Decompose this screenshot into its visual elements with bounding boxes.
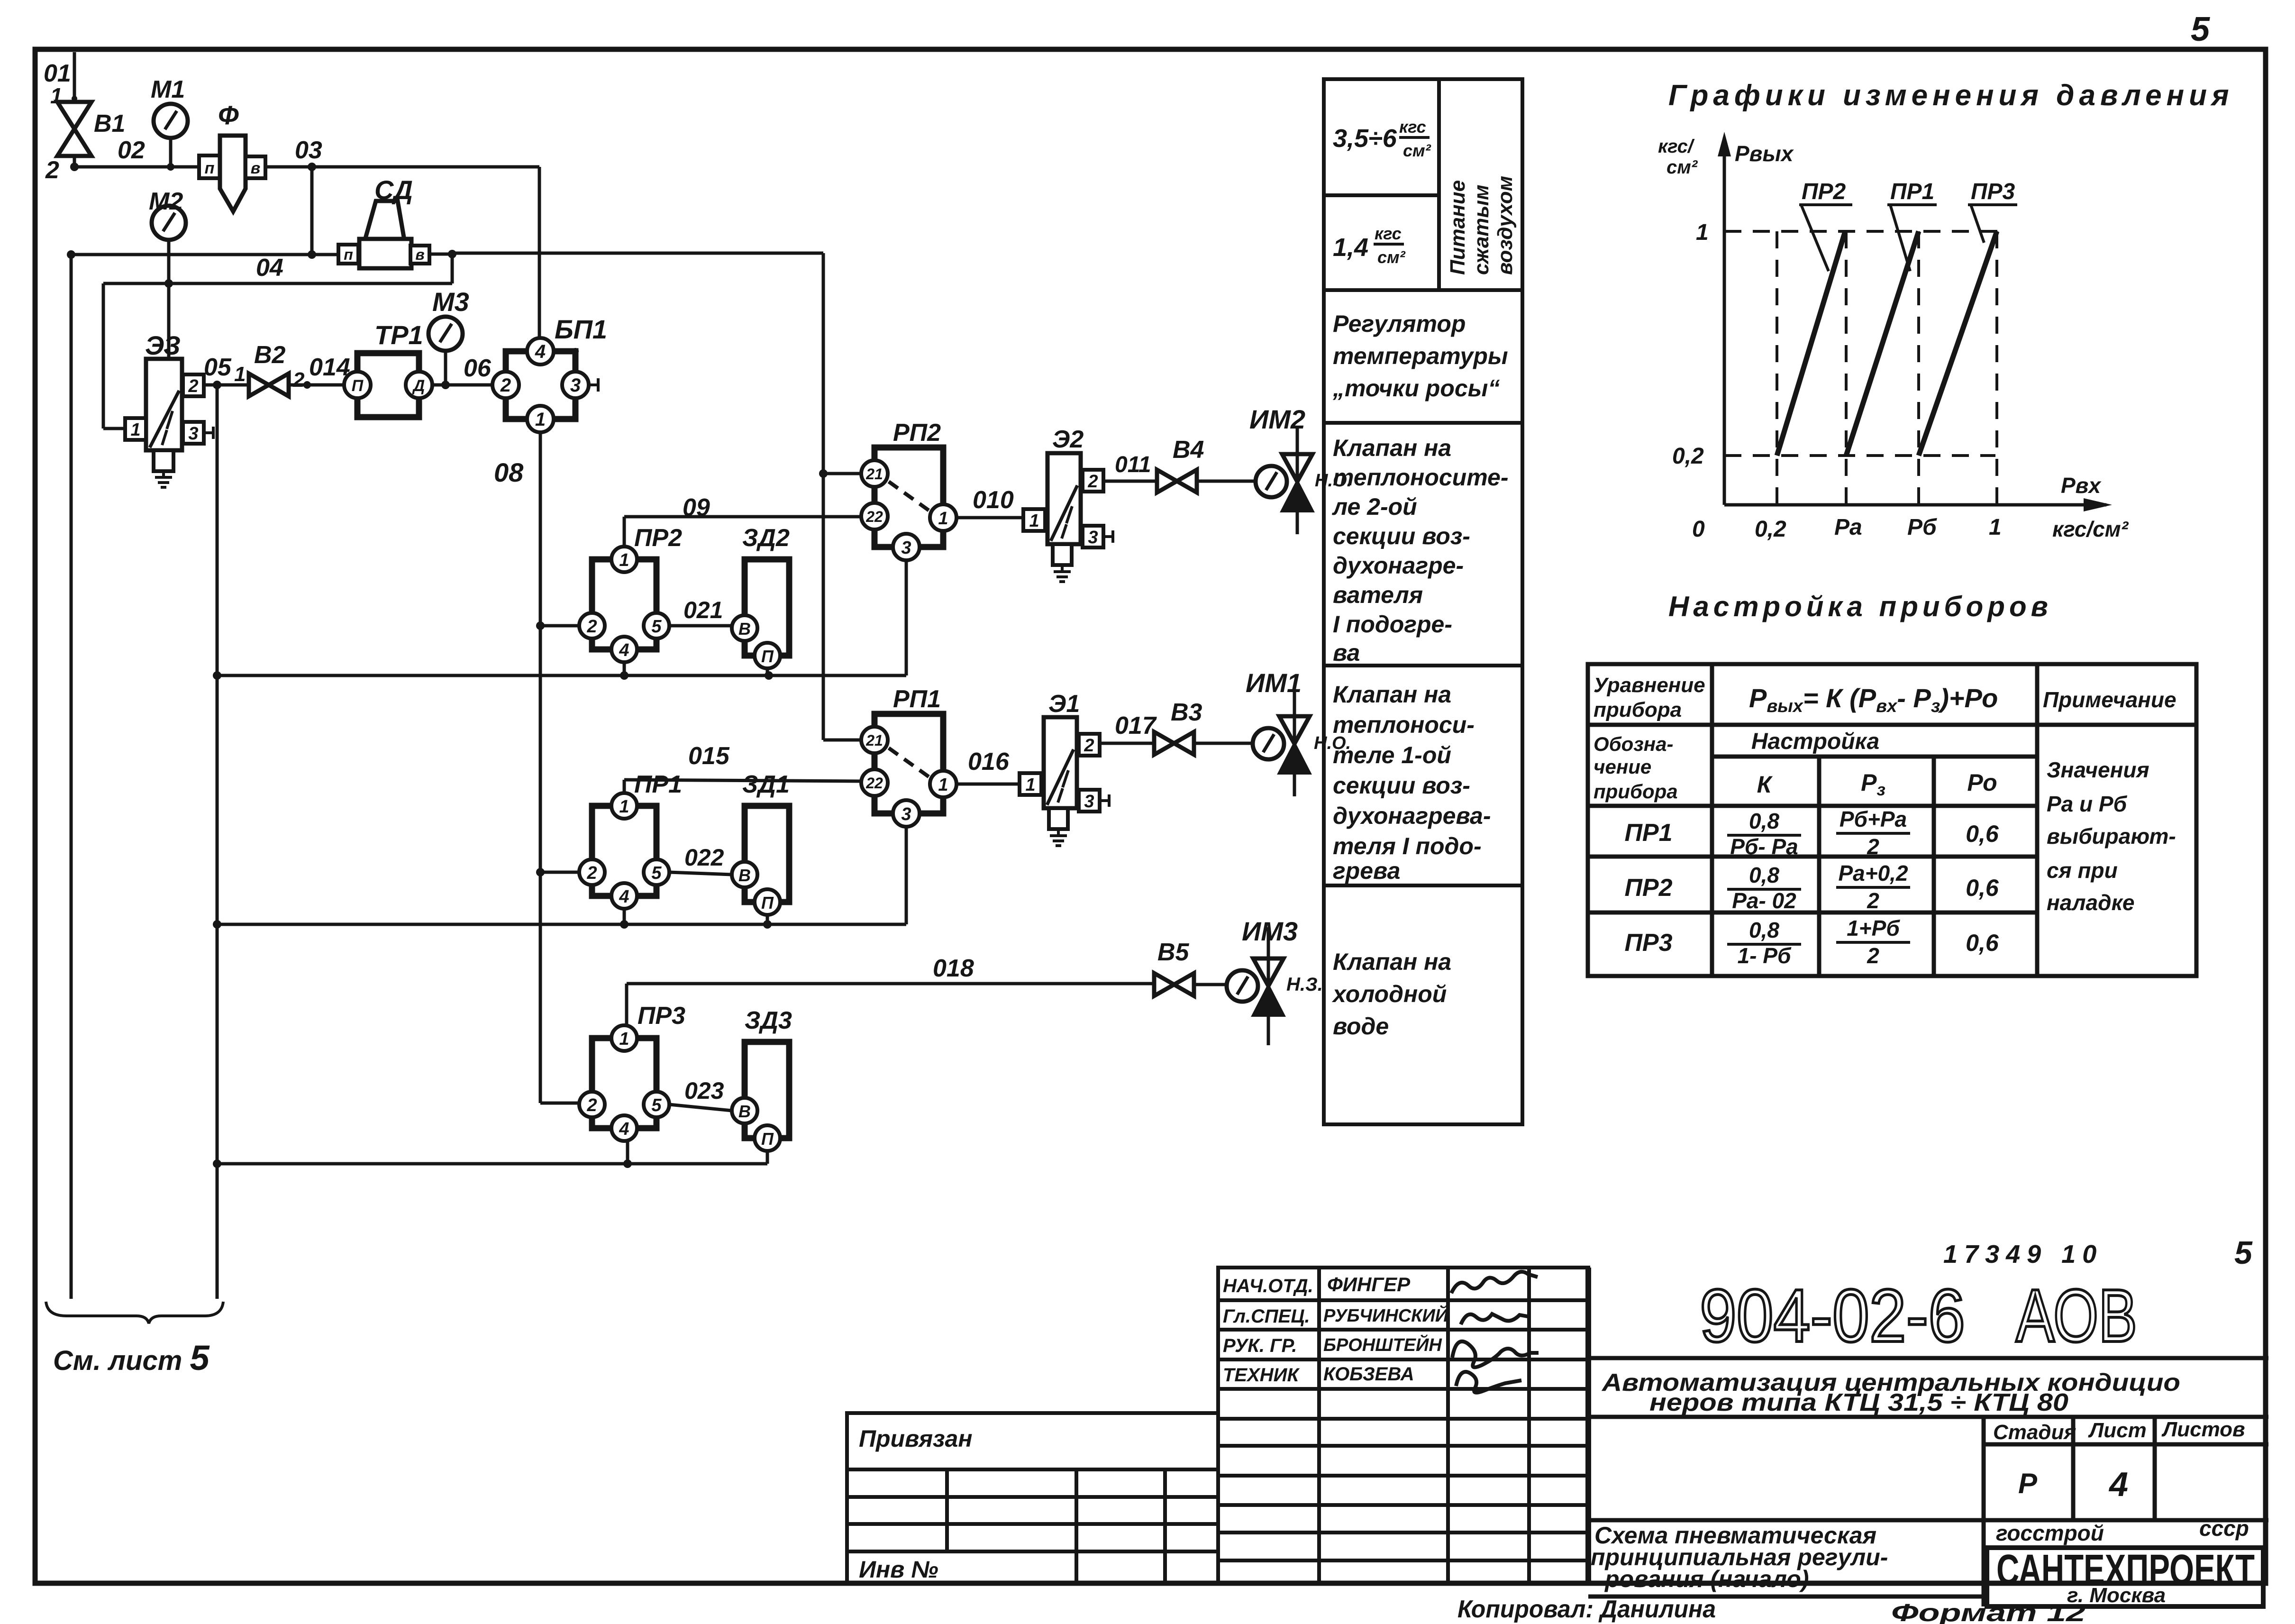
svg-text:09: 09 xyxy=(683,494,710,521)
svg-text:прибора: прибора xyxy=(1594,780,1678,803)
svg-text:Стадия: Стадия xyxy=(1993,1421,2076,1444)
svg-text:ПР1: ПР1 xyxy=(1624,819,1672,847)
svg-text:Э2: Э2 xyxy=(1052,426,1084,453)
wire 023 xyxy=(669,1104,732,1111)
bus line ПР2 row xyxy=(217,674,906,677)
wire РП2-3 down xyxy=(905,560,908,675)
svg-text:наладке: наладке xyxy=(2047,890,2134,915)
svg-text:Привязан: Привязан xyxy=(859,1425,973,1452)
svg-text:0,8: 0,8 xyxy=(1749,863,1779,887)
svg-text:1: 1 xyxy=(130,420,140,440)
svg-text:0,6: 0,6 xyxy=(1966,875,1999,901)
svg-text:Лист: Лист xyxy=(2088,1419,2147,1442)
wire ПР3-4 down xyxy=(626,1141,629,1164)
node after СД xyxy=(429,253,452,256)
manometer М3 xyxy=(428,317,463,351)
svg-text:ПР2: ПР2 xyxy=(1624,874,1672,902)
svg-text:В1: В1 xyxy=(94,110,125,137)
svg-text:ФИНГЕР: ФИНГЕР xyxy=(1327,1273,1411,1296)
svg-text:сжатым: сжатым xyxy=(1470,184,1493,275)
svg-text:кгс/: кгс/ xyxy=(1658,136,1695,157)
pilot feed to ЭЗ xyxy=(167,283,171,359)
relay РП1 xyxy=(861,714,956,827)
svg-text:выбирают-: выбирают- xyxy=(2047,824,2176,848)
svg-text:Регулятор: Регулятор xyxy=(1333,310,1466,337)
svg-text:015: 015 xyxy=(688,742,730,770)
svg-text:2: 2 xyxy=(1867,834,1879,859)
wire 011 xyxy=(1103,480,1157,483)
svg-text:в: в xyxy=(415,246,424,263)
svg-text:0,8: 0,8 xyxy=(1749,809,1779,833)
wire ЗД1-П down xyxy=(766,915,769,924)
svg-text:Клапан на: Клапан на xyxy=(1333,435,1451,461)
svg-text:БП1: БП1 xyxy=(555,314,607,344)
svg-text:холодной: холодной xyxy=(1331,981,1447,1007)
svg-text:1+Рб: 1+Рб xyxy=(1847,916,1900,940)
signature 2 xyxy=(1461,1314,1530,1324)
valve В3 xyxy=(1154,732,1194,755)
svg-text:04: 04 xyxy=(256,254,283,282)
svg-text:ЗД3: ЗД3 xyxy=(745,1007,792,1034)
loop ЗД3 xyxy=(732,1042,789,1151)
svg-text:чение: чение xyxy=(1594,756,1651,778)
svg-text:кгс: кгс xyxy=(1375,224,1402,243)
svg-text:ПР2: ПР2 xyxy=(634,524,682,552)
svg-text:03: 03 xyxy=(295,137,322,164)
svg-text:духонагре-: духонагре- xyxy=(1333,552,1464,579)
valve В1 xyxy=(57,102,91,156)
svg-text:„точки росы“: „точки росы“ xyxy=(1332,375,1500,401)
svg-text:В2: В2 xyxy=(254,341,286,369)
svg-text:ТР1: ТР1 xyxy=(374,320,423,350)
РП2 pilot feed xyxy=(819,469,828,478)
wire 015 xyxy=(623,780,626,793)
svg-text:НАЧ.ОТД.: НАЧ.ОТД. xyxy=(1223,1276,1313,1296)
svg-text:госстрой: госстрой xyxy=(1996,1521,2104,1545)
svg-text:018: 018 xyxy=(933,955,974,982)
bus line ПР1 row xyxy=(217,923,906,926)
стадия-лист box xyxy=(1588,1417,2268,1606)
svg-text:В3: В3 xyxy=(1171,699,1202,726)
svg-text:021: 021 xyxy=(683,597,723,623)
svg-text:Рб- Ра: Рб- Ра xyxy=(1730,834,1798,859)
svg-text:Настройка: Настройка xyxy=(1751,729,1879,754)
svg-text:Примечание: Примечание xyxy=(2043,687,2177,712)
svg-text:1: 1 xyxy=(535,409,546,430)
svg-text:ПР1: ПР1 xyxy=(634,771,682,798)
05 bus to sheet 5 xyxy=(216,385,219,1299)
svg-text:РУБЧИНСКИЙ: РУБЧИНСКИЙ xyxy=(1323,1305,1448,1326)
wire 02 xyxy=(74,165,201,169)
graph Y axis xyxy=(1723,137,1726,505)
svg-text:неров типа КТЦ 31,5 ÷ КТЦ 80: неров типа КТЦ 31,5 ÷ КТЦ 80 xyxy=(1649,1389,2068,1416)
left bus to sheet 5 xyxy=(70,255,73,1299)
svg-text:ПР3: ПР3 xyxy=(637,1002,685,1030)
graph X axis xyxy=(1724,503,2106,507)
svg-text:Гл.СПЕЦ.: Гл.СПЕЦ. xyxy=(1223,1306,1310,1327)
svg-text:Рб: Рб xyxy=(1907,515,1937,540)
svg-text:теле 1-ой: теле 1-ой xyxy=(1333,742,1451,768)
svg-text:Настройка приборов: Настройка приборов xyxy=(1668,591,2052,622)
title block grid xyxy=(1218,1268,1588,1583)
svg-text:в: в xyxy=(251,159,261,177)
svg-text:п: п xyxy=(205,159,215,177)
svg-text:014: 014 xyxy=(309,354,350,381)
attachment table привязан xyxy=(847,1413,1218,1583)
curve ПР1 xyxy=(1846,231,1919,456)
svg-text:вателя: вателя xyxy=(1333,582,1423,608)
svg-text:2: 2 xyxy=(1867,943,1879,968)
main stamp divider xyxy=(1585,1268,1591,1583)
svg-text:Рб+Ра: Рб+Ра xyxy=(1840,807,1907,831)
svg-text:грева: грева xyxy=(1333,858,1400,884)
wire РП1-3 down xyxy=(905,827,908,924)
loop ПР2 xyxy=(579,547,669,662)
svg-text:0,6: 0,6 xyxy=(1966,821,1999,847)
loop ЗД1 xyxy=(732,806,789,915)
svg-text:2: 2 xyxy=(292,368,305,392)
wire 03 xyxy=(265,165,539,169)
wire ЗД2-П down xyxy=(766,668,769,675)
svg-text:02: 02 xyxy=(118,137,145,164)
svg-text:017: 017 xyxy=(1115,712,1157,739)
svg-text:теплоноси-: теплоноси- xyxy=(1333,712,1475,738)
svg-text:кгс/см²: кгс/см² xyxy=(2052,517,2129,541)
svg-text:К: К xyxy=(1757,771,1773,798)
bus line ПР3 row xyxy=(217,1162,767,1166)
svg-text:5: 5 xyxy=(2234,1235,2253,1271)
wire 022 xyxy=(669,872,732,875)
svg-text:РП1: РП1 xyxy=(893,685,941,713)
curve ПР2 xyxy=(1777,231,1845,456)
wire 03 drop to СД xyxy=(310,167,314,255)
svg-text:ТЕХНИК: ТЕХНИК xyxy=(1223,1365,1300,1386)
solenoid valve Э1 xyxy=(1020,717,1109,846)
svg-text:0,2: 0,2 xyxy=(1755,517,1786,542)
wire 018 xyxy=(625,984,628,1025)
svg-text:ва: ва xyxy=(1333,639,1360,666)
wire 017 xyxy=(1101,742,1154,745)
svg-text:М2: М2 xyxy=(149,188,183,215)
svg-text:022: 022 xyxy=(684,844,724,871)
svg-text:Ф: Ф xyxy=(218,100,239,130)
settings table grid xyxy=(1588,664,2196,976)
svg-text:духонагрева-: духонагрева- xyxy=(1333,803,1491,829)
svg-text:ссср: ссср xyxy=(2199,1516,2249,1541)
svg-text:5: 5 xyxy=(2191,10,2210,48)
wire ЗД3-П down xyxy=(766,1151,769,1164)
dashed guide x=0,2 xyxy=(1776,231,1778,505)
signature 1 xyxy=(1451,1272,1538,1293)
svg-text:Инв №: Инв № xyxy=(859,1556,938,1583)
svg-text:Клапан на: Клапан на xyxy=(1333,949,1451,975)
svg-text:АОВ: АОВ xyxy=(2016,1274,2137,1358)
dashed guide x=Рб xyxy=(1917,231,1920,505)
svg-text:023: 023 xyxy=(684,1077,724,1104)
brace xyxy=(46,1302,223,1323)
svg-text:ЗД2: ЗД2 xyxy=(742,524,790,552)
svg-text:Н.З.: Н.З. xyxy=(1286,974,1323,995)
svg-text:ЭЗ: ЭЗ xyxy=(145,330,181,360)
svg-text:08: 08 xyxy=(494,457,524,487)
svg-text:см²: см² xyxy=(1403,141,1431,160)
loop ПР3 xyxy=(579,1025,669,1141)
svg-text:I подогре-: I подогре- xyxy=(1333,611,1452,638)
svg-text:Ра: Ра xyxy=(1834,515,1862,540)
curve ПР3 xyxy=(1919,231,1997,456)
valve В2 xyxy=(249,374,289,396)
svg-text:Ра- 02: Ра- 02 xyxy=(1732,888,1796,913)
svg-text:Ра+0,2: Ра+0,2 xyxy=(1838,861,1908,885)
svg-text:п: п xyxy=(344,246,353,263)
svg-text:Формат 12: Формат 12 xyxy=(1891,1599,2086,1624)
svg-text:05: 05 xyxy=(204,354,232,381)
wire 01 xyxy=(73,52,76,102)
svg-text:см²: см² xyxy=(1667,157,1698,178)
dashed guide x=Ра xyxy=(1845,231,1848,505)
supply line into СД xyxy=(71,253,339,256)
dashed guide x=1 xyxy=(1995,231,1998,505)
wire 08 xyxy=(539,432,542,1103)
wire 05 xyxy=(204,383,249,387)
svg-text:секции воз-: секции воз- xyxy=(1333,772,1470,799)
svg-text:секции воз-: секции воз- xyxy=(1333,523,1470,549)
svg-text:010: 010 xyxy=(973,486,1014,514)
svg-text:Д: Д xyxy=(412,377,425,395)
svg-text:4: 4 xyxy=(2108,1466,2128,1504)
svg-text:1: 1 xyxy=(1696,220,1709,245)
svg-text:М1: М1 xyxy=(151,76,185,103)
svg-text:рования (начало): рования (начало) xyxy=(1604,1566,1809,1592)
wire 010 xyxy=(956,516,1023,520)
svg-text:1- Рб: 1- Рб xyxy=(1738,943,1792,968)
svg-text:2: 2 xyxy=(500,375,511,396)
svg-text:М3: М3 xyxy=(432,287,469,317)
svg-text:Уравнение: Уравнение xyxy=(1594,674,1705,697)
wire 016 xyxy=(956,783,1020,786)
solenoid valve Э2 xyxy=(1023,453,1113,582)
svg-text:ПР3: ПР3 xyxy=(1971,179,2015,204)
description column table xyxy=(1324,79,1522,1124)
svg-text:0: 0 xyxy=(1692,517,1705,542)
loop ПР1 xyxy=(579,793,669,909)
svg-text:ПР3: ПР3 xyxy=(1624,929,1672,957)
signature 4 xyxy=(1456,1372,1521,1393)
wire 07 to РП pilots xyxy=(452,252,823,255)
svg-text:Ра и Рб: Ра и Рб xyxy=(2047,792,2128,816)
svg-text:Значения: Значения xyxy=(2047,757,2149,782)
svg-text:2: 2 xyxy=(1867,888,1879,913)
svg-text:В4: В4 xyxy=(1173,436,1204,464)
valve В5 xyxy=(1154,973,1194,996)
svg-text:Э1: Э1 xyxy=(1048,690,1080,718)
svg-text:температуры: температуры xyxy=(1333,343,1508,369)
svg-text:РУК. ГР.: РУК. ГР. xyxy=(1223,1335,1297,1356)
svg-text:011: 011 xyxy=(1115,452,1151,477)
svg-text:Клапан на: Клапан на xyxy=(1333,681,1451,708)
wire ПР1-4 down xyxy=(623,909,626,924)
svg-text:прибора: прибора xyxy=(1594,698,1682,721)
svg-text:БРОНШТЕЙН: БРОНШТЕЙН xyxy=(1323,1334,1442,1355)
wire 014 xyxy=(289,383,345,387)
svg-text:Ро: Ро xyxy=(1967,769,1997,796)
svg-text:В5: В5 xyxy=(1157,939,1190,966)
svg-text:Копировал: Данилина: Копировал: Данилина xyxy=(1457,1596,1716,1623)
junction 08/ПР1 xyxy=(536,868,545,876)
svg-text:теплоносите-: теплоносите- xyxy=(1333,464,1508,491)
svg-text:см²: см² xyxy=(1377,247,1406,267)
wire 021 xyxy=(669,624,732,628)
svg-text:1: 1 xyxy=(234,363,246,386)
svg-text:Рвх: Рвх xyxy=(2061,473,2102,498)
svg-text:Обозна-: Обозна- xyxy=(1594,733,1673,755)
wire ПР2-4 down xyxy=(623,662,626,675)
svg-text:КОБЗЕВА: КОБЗЕВА xyxy=(1323,1364,1414,1385)
svg-text:воде: воде xyxy=(1333,1013,1389,1040)
loop ЗД2 xyxy=(732,559,789,668)
relay РП2 xyxy=(861,447,956,560)
svg-text:3,5÷6: 3,5÷6 xyxy=(1333,124,1397,153)
svg-text:4: 4 xyxy=(535,341,546,362)
svg-text:РП2: РП2 xyxy=(893,419,941,447)
svg-text:17349 10: 17349 10 xyxy=(1943,1240,2103,1268)
svg-text:1: 1 xyxy=(1989,515,2002,540)
svg-text:ПР2: ПР2 xyxy=(1802,179,1846,204)
wire 06 xyxy=(432,383,493,387)
svg-text:Графики изменения давления: Графики изменения давления xyxy=(1668,79,2233,112)
wire 09 xyxy=(623,517,626,547)
org САНТЕХПРОЕКТ xyxy=(1987,1548,2263,1606)
corner 08/ПР3 xyxy=(540,1102,580,1105)
svg-text:016: 016 xyxy=(968,748,1010,776)
svg-text:0,2: 0,2 xyxy=(1672,444,1704,469)
svg-text:Р: Р xyxy=(2018,1468,2038,1499)
svg-text:2: 2 xyxy=(45,156,59,184)
signature 3 xyxy=(1452,1341,1539,1368)
junction 08/ПР2 xyxy=(536,621,545,630)
svg-text:0,8: 0,8 xyxy=(1749,918,1779,942)
svg-text:3: 3 xyxy=(570,375,581,396)
svg-text:1,4: 1,4 xyxy=(1333,233,1368,262)
svg-text:Рвых: Рвых xyxy=(1735,141,1794,166)
svg-text:3: 3 xyxy=(188,424,198,444)
vent on БП1 port 3 xyxy=(589,383,598,386)
svg-text:0,6: 0,6 xyxy=(1966,930,1999,956)
svg-text:904-02-6: 904-02-6 xyxy=(1700,1274,1965,1358)
svg-text:ЗД1: ЗД1 xyxy=(742,771,790,798)
svg-text:кгс: кгс xyxy=(1399,117,1426,137)
manometer М2 xyxy=(152,206,186,240)
svg-text:Листов: Листов xyxy=(2161,1418,2245,1441)
svg-text:ПР1: ПР1 xyxy=(1890,179,1934,204)
node 2 xyxy=(70,163,79,171)
svg-text:воздухом: воздухом xyxy=(1494,176,1517,275)
svg-text:ле 2-ой: ле 2-ой xyxy=(1332,493,1417,520)
svg-text:П: П xyxy=(352,377,364,395)
svg-text:06: 06 xyxy=(464,355,492,382)
manometer М1 xyxy=(154,104,188,138)
valve В4 xyxy=(1157,470,1197,493)
dashed guide y=1 xyxy=(1724,230,1999,233)
svg-text:Питание: Питание xyxy=(1446,180,1469,275)
svg-text:ся при: ся при xyxy=(2047,858,2118,883)
dashed guide y=0,2 xyxy=(1724,454,1995,457)
svg-text:2: 2 xyxy=(188,376,198,396)
РП1 pilot feed xyxy=(823,739,862,742)
svg-text:теля I подо-: теля I подо- xyxy=(1333,833,1482,859)
wire 04 loop xyxy=(451,254,454,283)
